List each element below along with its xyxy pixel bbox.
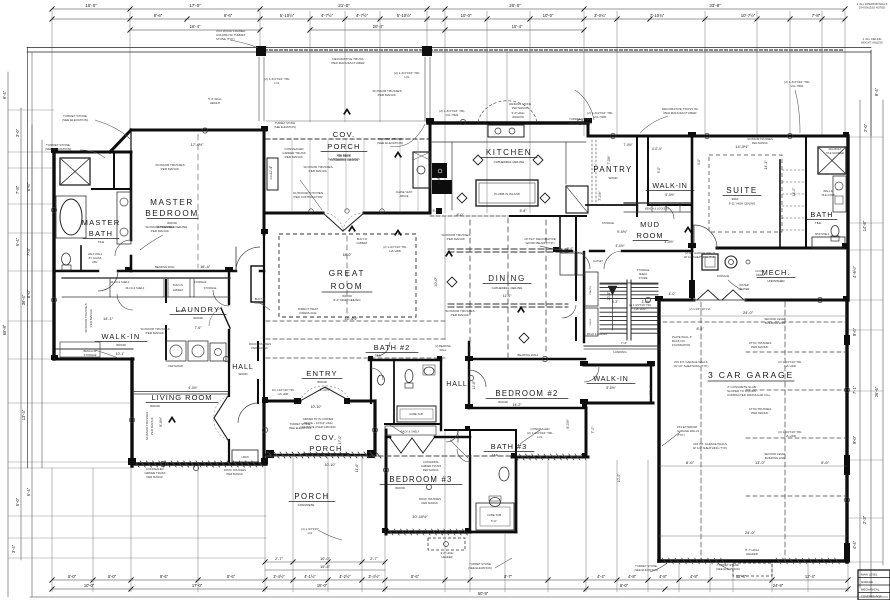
wall: left exterior: [52, 152, 55, 359]
svg-text:SCISSOR TRUSSES: SCISSOR TRUSSES: [145, 412, 149, 440]
svg-text:LVL: LVL: [537, 435, 543, 439]
svg-text:3 CAR GARAGE: 3 CAR GARAGE: [708, 370, 794, 380]
svg-text:(SEE ELEVATION): (SEE ELEVATION): [377, 141, 403, 145]
svg-text:2'-3”: 2'-3”: [862, 515, 867, 524]
svg-text:MOLD & RAILING: MOLD & RAILING: [587, 333, 607, 336]
pantry shelves: [591, 140, 593, 205]
svg-text:LVL HDR: LVL HDR: [784, 364, 796, 368]
wall: master bedroom top: [131, 129, 266, 132]
svg-text:5'-0”: 5'-0”: [68, 574, 77, 579]
svg-text:11'-4”: 11'-4”: [269, 166, 273, 174]
svg-text:WALK-IN: WALK-IN: [652, 181, 687, 190]
svg-text:15'-4”: 15'-4”: [512, 24, 523, 29]
door arc: suite walkin: [660, 205, 674, 219]
svg-text:(SEE ELEVATION): (SEE ELEVATION): [289, 426, 312, 430]
door arc: master wic entry: [98, 271, 118, 291]
wall: bath3 left: [469, 456, 471, 532]
dining beams dashed: [448, 248, 568, 250]
svg-text:PER MANUF.: PER MANUF.: [227, 472, 244, 476]
svg-text:PER MANUF.: PER MANUF.: [751, 345, 769, 349]
svg-text:ROOM: ROOM: [637, 231, 664, 240]
svg-text:TILE: TILE: [98, 240, 104, 244]
svg-text:5'-0½”: 5'-0½”: [606, 386, 616, 390]
door arc: bedroom2: [469, 370, 486, 387]
wall: bath3 lower south: [470, 531, 516, 534]
svg-text:7'-8”: 7'-8”: [15, 185, 20, 194]
hatch: bedroom3 bottom wall: [388, 529, 393, 535]
svg-text:5'-0”: 5'-0”: [491, 519, 497, 523]
arched window above sink: [478, 101, 537, 122]
svg-text:STORAGE: STORAGE: [602, 222, 615, 225]
wall: laundry left: [165, 280, 167, 302]
wall: water closet partition: [80, 246, 82, 271]
svg-text:HEADER: HEADER: [441, 555, 452, 559]
garage dimension lines: [659, 315, 847, 317]
svg-text:10'-0”: 10'-0”: [434, 276, 438, 286]
svg-text:BEARING WALL: BEARING WALL: [155, 265, 176, 269]
svg-text:20'-0”: 20'-0”: [509, 3, 521, 8]
svg-text:CABINET: CABINET: [356, 241, 368, 245]
kitchen counter lines: [432, 141, 586, 143]
wall: bath3 top: [445, 429, 516, 431]
door: entry french doors: [300, 387, 325, 401]
svg-text:PER MANUF.: PER MANUF.: [89, 308, 93, 327]
title block: [858, 570, 890, 600]
svg-text:PANTRY: PANTRY: [589, 285, 592, 294]
svg-text:CABINET: CABINET: [173, 289, 184, 292]
porch column: [256, 46, 266, 56]
door arc: master entry: [236, 247, 260, 271]
svg-text:9'-0½”: 9'-0½”: [566, 419, 570, 429]
bath2 fixtures: [405, 370, 413, 383]
svg-text:4'-0”: 4'-0”: [697, 159, 701, 165]
svg-text:4'-4”: 4'-4”: [597, 574, 606, 579]
wall: kitchen top: [428, 121, 588, 125]
svg-text:HALL: HALL: [446, 381, 468, 388]
wall: cov porch lower left: [262, 403, 265, 464]
wall: master right / porch left: [263, 130, 266, 234]
svg-text:STORAGE: STORAGE: [204, 286, 217, 290]
svg-text:LVL: LVL: [404, 75, 410, 79]
svg-text:5'-0½”: 5'-0½”: [665, 193, 675, 197]
wall: walk-in bottom: [54, 358, 133, 361]
svg-text:11'-6”: 11'-6”: [472, 381, 476, 389]
closet chevrons: hall: [390, 438, 401, 453]
svg-text:7'-1”: 7'-1”: [852, 385, 857, 394]
svg-text:WALL: WALL: [440, 348, 448, 352]
svg-text:10'-0”: 10'-0”: [85, 3, 97, 8]
diagonal: laundry corner door: [221, 308, 230, 328]
svg-text:HEADER: HEADER: [746, 552, 758, 556]
svg-text:PER MANUF.: PER MANUF.: [168, 365, 183, 368]
svg-text:3'-0½”: 3'-0½”: [664, 240, 674, 244]
door: great room french doors: [323, 213, 343, 231]
svg-text:5'-0”: 5'-0”: [15, 497, 20, 506]
wall: bedroom2 bottom: [469, 407, 586, 409]
suite ceiling dashed box: [709, 155, 782, 232]
wall: laundry right: [228, 271, 230, 304]
svg-text:(SEE ELEVATION): (SEE ELEVATION): [634, 568, 658, 572]
wall: suite bottom: [717, 247, 848, 250]
wall: garage left: [657, 300, 660, 561]
svg-text:10'-0”: 10'-0”: [617, 474, 621, 483]
wall: suite walk-in left: [647, 136, 649, 205]
svg-text:8'-6”: 8'-6”: [686, 460, 695, 465]
svg-text:SCISSOR TRUSSES: SCISSOR TRUSSES: [84, 303, 88, 332]
svg-text:24'-0”: 24'-0”: [745, 530, 756, 535]
svg-text:PER MANUF.: PER MANUF.: [447, 237, 466, 241]
svg-text:BUILT-IN: BUILT-IN: [173, 284, 183, 287]
svg-text:PER MANUF.: PER MANUF.: [751, 411, 769, 415]
svg-text:WOOD: WOOD: [150, 404, 160, 408]
svg-text:36'-4”: 36'-4”: [21, 294, 26, 305]
svg-text:(SEE ELEVATION): (SEE ELEVATION): [45, 147, 71, 151]
svg-text:LVL HDR: LVL HDR: [594, 115, 607, 119]
mud bench and lockers: [624, 202, 691, 204]
svg-text:12'-4”: 12'-4”: [736, 574, 747, 579]
svg-text:BEDROOM #2: BEDROOM #2: [495, 389, 558, 398]
svg-text:3'-10½”: 3'-10½”: [320, 388, 331, 392]
svg-text:GREAT: GREAT: [329, 269, 366, 278]
svg-text:LVL HDR: LVL HDR: [791, 84, 804, 88]
svg-text:BENCH & LOCKERS: BENCH & LOCKERS: [645, 208, 669, 211]
svg-text:17'-4½”: 17'-4½”: [191, 143, 204, 147]
svg-text:13'-0”: 13'-0”: [755, 460, 766, 465]
door arc: suite entry: [694, 225, 717, 248]
svg-text:STORE: STORE: [639, 276, 648, 280]
svg-text:5'-0”: 5'-0”: [657, 167, 661, 173]
wall: bedroom3 left: [385, 430, 388, 534]
svg-text:WINDOW: WINDOW: [512, 115, 524, 119]
wall: walkin2 right: [650, 365, 652, 403]
svg-text:CATHEDRAL: CATHEDRAL: [423, 460, 440, 464]
door arc: bath3: [457, 449, 470, 462]
garage dashed framing lines: [700, 302, 702, 560]
svg-text:4'-8”: 4'-8”: [659, 574, 668, 579]
svg-text:7'-8”: 7'-8”: [812, 13, 821, 18]
dimension lines: top band: [52, 8, 845, 10]
svg-text:4'-0”-0”: 4'-0”-0”: [652, 147, 662, 151]
svg-text:(SEE ELEVATION): (SEE ELEVATION): [274, 125, 296, 129]
svg-text:(2) 1-3/4”X16” LVL: (2) 1-3/4”X16” LVL: [689, 307, 711, 311]
bath2 cube tub: [397, 406, 436, 422]
dimension lines: bottom bands: [265, 561, 385, 563]
svg-text:26'-6”: 26'-6”: [874, 386, 879, 397]
svg-text:9'-0”: 9'-0”: [852, 327, 857, 336]
mech floor drain: [746, 260, 750, 264]
svg-text:PORCH: PORCH: [294, 492, 329, 501]
svg-text:5'-6” HIGH: 5'-6” HIGH: [512, 111, 525, 115]
svg-text:4'-2½”: 4'-2½”: [339, 574, 351, 579]
svg-text:4'-8”: 4'-8”: [690, 574, 699, 579]
svg-text:FURNACE: FURNACE: [717, 274, 730, 278]
leader arcs: [95, 120, 131, 140]
svg-text:W/ 1/2” SHEATHING (TYP.): W/ 1/2” SHEATHING (TYP.): [674, 364, 708, 368]
kitchen fridge: [566, 186, 588, 213]
kitchen sink: [488, 125, 524, 137]
dimension lines: left band: [7, 72, 9, 597]
svg-text:STORAGE: STORAGE: [194, 280, 207, 284]
svg-text:CATHEDRAL CEILING: CATHEDRAL CEILING: [494, 160, 525, 164]
svg-text:FOUNDATION: FOUNDATION: [672, 343, 690, 347]
svg-text:WALK-IN: WALK-IN: [593, 374, 628, 383]
svg-text:(2) 1-3/4”X16” TRL: (2) 1-3/4”X16” TRL: [629, 303, 652, 307]
svg-text:LVL: LVL: [274, 81, 280, 85]
svg-text:4. ALL CEILING: 4. ALL CEILING: [862, 37, 881, 41]
wall: pantry bottom: [586, 204, 637, 206]
svg-text:24'-8”: 24'-8”: [773, 583, 784, 588]
svg-text:4'-4”: 4'-4”: [852, 540, 857, 549]
suite linen shelves: [782, 169, 804, 171]
svg-text:7'-0”: 7'-0”: [591, 427, 595, 434]
svg-text:COV.: COV.: [333, 130, 356, 139]
svg-text:CONCRETE: CONCRETE: [298, 503, 315, 507]
svg-text:TILE: TILE: [492, 453, 498, 457]
svg-text:8'-6”: 8'-6”: [696, 327, 704, 331]
svg-text:8'-0”: 8'-0”: [26, 289, 31, 298]
kitchen range (black): [432, 163, 447, 178]
wall: bath2 left: [370, 360, 372, 403]
svg-text:BATH: BATH: [810, 210, 833, 219]
svg-text:7'-4”: 7'-4”: [621, 341, 627, 345]
svg-text:TURRET STONE: TURRET STONE: [275, 121, 295, 125]
door arc: bath2: [371, 368, 383, 380]
svg-text:3'-4”: 3'-4”: [11, 544, 16, 553]
svg-text:BATH: BATH: [89, 229, 114, 238]
svg-text:WOOD: WOOD: [317, 380, 327, 384]
svg-text:9'-0½”: 9'-0½”: [159, 416, 163, 427]
wall: master bedroom turret corner: [110, 130, 131, 152]
svg-text:SHELF: SHELF: [590, 318, 592, 326]
svg-text:(SEE ELEVATION): (SEE ELEVATION): [468, 566, 492, 570]
svg-text:4'-1½”: 4'-1½”: [304, 574, 316, 579]
svg-text:PER MANUF.: PER MANUF.: [150, 417, 154, 435]
svg-text:WOOD: WOOD: [395, 486, 405, 490]
svg-text:TURRET STONE: TURRET STONE: [290, 422, 311, 426]
svg-text:WOOD: WOOD: [176, 309, 184, 313]
svg-text:COMPACTED GRANULAR FILL: COMPACTED GRANULAR FILL: [727, 393, 771, 397]
svg-text:ABOVE: ABOVE: [400, 194, 409, 198]
svg-text:7'-0½”: 7'-0½”: [607, 156, 611, 165]
jamb: garage right door blocks: [844, 455, 850, 475]
svg-text:10'-1”: 10'-1”: [116, 352, 125, 356]
svg-text:LANDING: LANDING: [613, 350, 627, 354]
svg-text:GARAGE: GARAGE: [861, 580, 873, 584]
svg-text:6'-4”: 6'-4”: [15, 237, 20, 246]
wall: living room left: [130, 359, 133, 466]
svg-text:ENTRY: ENTRY: [306, 369, 338, 378]
wall: bath2 top: [369, 359, 441, 361]
svg-text:PER MANUF.: PER MANUF.: [378, 93, 397, 97]
svg-text:WOOD: WOOD: [238, 372, 247, 376]
svg-text:3'-4”: 3'-4”: [457, 428, 463, 432]
svg-text:9'-6” HIGH: 9'-6” HIGH: [441, 551, 454, 555]
svg-text:65'-8”: 65'-8”: [2, 324, 7, 335]
svg-text:COV.: COV.: [315, 433, 338, 442]
svg-text:CHASE VENT: CHASE VENT: [396, 190, 413, 194]
wall: suite bath partition: [805, 136, 807, 248]
truss direction markers: [395, 152, 401, 157]
svg-text:(SEE ELEVATION): (SEE ELEVATION): [62, 118, 88, 122]
wall: kitchen left: [429, 122, 432, 213]
svg-text:CUBE TUB: CUBE TUB: [487, 513, 501, 517]
svg-text:3'-0½”: 3'-0½”: [616, 244, 625, 248]
svg-text:LIVING ROOM: LIVING ROOM: [151, 393, 212, 402]
svg-text:HANGING STONE: HANGING STONE: [509, 102, 532, 106]
svg-text:MUD: MUD: [640, 220, 660, 229]
svg-text:PER MANUF.: PER MANUF.: [285, 155, 304, 159]
wall: garage bottom: [659, 559, 848, 563]
svg-text:16'-4”: 16'-4”: [200, 264, 211, 269]
svg-text:20'-3”: 20'-3”: [607, 292, 611, 301]
svg-text:MAIN LEVEL: MAIN LEVEL: [861, 573, 878, 577]
svg-text:CABINET: CABINET: [254, 301, 266, 305]
svg-text:PER MANUFACTURER: PER MANUFACTURER: [663, 111, 697, 115]
svg-text:ADA BUILT: ADA BUILT: [828, 147, 841, 151]
svg-text:14'-2”: 14'-2”: [512, 403, 522, 407]
svg-text:PER MANUF.: PER MANUF.: [252, 346, 269, 350]
circled door tags: [202, 128, 207, 133]
door arc: bath2: [376, 342, 390, 356]
svg-text:HALL: HALL: [232, 364, 254, 371]
svg-text:WALL &: WALL &: [823, 189, 833, 193]
svg-text:4'-6½”: 4'-6½”: [852, 266, 857, 278]
stairs landing: [584, 345, 660, 347]
svg-text:PER MANUF.: PER MANUF.: [752, 141, 769, 145]
closet shelf: hall: [385, 426, 436, 435]
svg-text:PER MANUF.: PER MANUF.: [422, 501, 439, 505]
svg-text:5'-0”: 5'-0”: [108, 574, 117, 579]
svg-text:PLUMB IN ISLAND: PLUMB IN ISLAND: [494, 192, 521, 196]
svg-text:WOOD: WOOD: [498, 400, 508, 404]
svg-text:W/ 1/2” SHEATHING (TYP.): W/ 1/2” SHEATHING (TYP.): [684, 255, 716, 259]
svg-text:3'-4½”: 3'-4½”: [273, 574, 285, 579]
porch grill counter: [267, 158, 278, 190]
svg-text:16'-4”: 16'-4”: [190, 24, 201, 29]
jamb blocks at wall ends: [261, 126, 268, 131]
svg-text:GIRDER TRUSS: GIRDER TRUSS: [421, 464, 441, 468]
kitchen bearing wall dashed: [430, 215, 586, 217]
wall: master bedroom left (bath divider): [130, 152, 133, 240]
dashed lines: dining verticals: [469, 220, 471, 355]
wall: kitchen step right: [587, 122, 590, 136]
svg-text:5'-6”: 5'-6”: [821, 460, 830, 465]
door arc: walkin2: [584, 367, 599, 382]
svg-text:17'-0”: 17'-0”: [338, 435, 342, 445]
door: garage-mech doors: [697, 290, 708, 300]
svg-text:14'-1”: 14'-1”: [103, 316, 114, 321]
svg-text:PER CONTRACTOR: PER CONTRACTOR: [294, 195, 324, 199]
svg-text:50'-8”: 50'-8”: [478, 591, 489, 596]
svg-text:BUILT IN: BUILT IN: [255, 297, 266, 301]
svg-text:14'-0½”: 14'-0½”: [735, 144, 749, 149]
closet: hall chase: [577, 253, 584, 275]
door arc: pantry: [562, 305, 576, 318]
svg-text:10'-0”: 10'-0”: [543, 13, 554, 18]
svg-text:BUILDING LINE: BUILDING LINE: [765, 456, 785, 460]
svg-text:6'-6”: 6'-6”: [26, 182, 31, 191]
wall: stairs left: [583, 252, 585, 342]
hatch: garage bottom wall: [662, 558, 667, 564]
svg-text:PER MANUF.: PER MANUF.: [423, 468, 440, 472]
great room ceiling dashed box: [279, 234, 416, 317]
wall: bath3 partition: [515, 430, 517, 457]
svg-text:SUITE: SUITE: [726, 186, 758, 195]
svg-text:BUILT IN: BUILT IN: [357, 237, 368, 241]
svg-text:BEARING WALL: BEARING WALL: [518, 353, 539, 357]
svg-text:8'-6”: 8'-6”: [154, 13, 163, 18]
svg-text:HALF WALL: HALF WALL: [88, 252, 103, 256]
svg-text:BATH #3: BATH #3: [491, 442, 527, 451]
svg-text:HEIGHT UNLESS: HEIGHT UNLESS: [861, 40, 883, 44]
svg-text:7'-6”: 7'-6”: [195, 326, 202, 330]
wall: bath2 right / hall left: [440, 360, 442, 430]
svg-text:10'-7½”: 10'-7½”: [741, 13, 756, 18]
svg-text:7'-3”: 7'-3”: [26, 247, 31, 256]
svg-text:BEDROOM: BEDROOM: [145, 209, 199, 218]
svg-text:8'-6”: 8'-6”: [227, 574, 236, 579]
hatch: bath3 bottom wall: [513, 454, 518, 460]
svg-text:RACK & SHELF: RACK & SHELF: [401, 430, 420, 434]
svg-text:BENCH W/: BENCH W/: [84, 349, 97, 353]
svg-text:TILE: TILE: [375, 354, 381, 358]
wall: walkin2 top: [584, 364, 653, 367]
master bath shower: [60, 158, 90, 185]
svg-text:STORAGE: STORAGE: [84, 353, 97, 357]
svg-text:PANTRY: PANTRY: [593, 165, 632, 174]
svg-text:11'-0”: 11'-0”: [503, 294, 513, 298]
svg-text:2'-0”: 2'-0”: [567, 247, 573, 251]
svg-text:19'-8”: 19'-8”: [320, 564, 331, 569]
svg-text:SCISSOR TRUSSES: SCISSOR TRUSSES: [747, 137, 773, 141]
door arc: living room: [238, 403, 258, 423]
svg-text:GIRDER TR IN CORNER: GIRDER TR IN CORNER: [303, 417, 334, 421]
svg-text:9010: 9010: [732, 197, 739, 201]
svg-text:WOOD: WOOD: [608, 176, 617, 180]
svg-text:TILE: TILE: [815, 221, 821, 225]
svg-text:14'-0”: 14'-0”: [792, 188, 796, 197]
closet: hall south: [469, 430, 471, 457]
svg-text:TILE CURB: TILE CURB: [821, 193, 835, 197]
svg-text:WOOD: WOOD: [116, 343, 126, 347]
fireplace: [251, 266, 264, 302]
svg-text:PER MANUFACTURER: PER MANUFACTURER: [331, 61, 365, 65]
svg-text:LVL HDR: LVL HDR: [278, 392, 289, 396]
svg-text:9'-11” HIGH CEILING: 9'-11” HIGH CEILING: [729, 202, 756, 206]
svg-text:COVERED POR: COVERED POR: [861, 595, 882, 599]
svg-text:16) 1-3/4”X16” TRL: 16) 1-3/4”X16” TRL: [272, 388, 295, 392]
svg-text:KITCHEN: KITCHEN: [486, 148, 532, 157]
svg-text:10'-10”: 10'-10”: [324, 463, 336, 467]
wall: cov porch lower right: [373, 401, 376, 455]
wall: bath2 bottom: [385, 423, 441, 425]
mech water heater: [725, 256, 737, 268]
svg-text:MECHANICAL: MECHANICAL: [861, 588, 880, 592]
svg-text:RLCO & SHELF: RLCO & SHELF: [111, 280, 130, 284]
diamond markers dining: [447, 277, 457, 287]
svg-text:MASTER: MASTER: [82, 218, 121, 227]
svg-text:4'-7½”: 4'-7½”: [356, 13, 369, 18]
wall: bath3 bottom: [512, 456, 588, 459]
laundry appliances: [166, 341, 186, 361]
svg-text:4'-7½”: 4'-7½”: [321, 13, 334, 18]
wall: suite left: [691, 136, 694, 251]
svg-text:5'-8”: 5'-8”: [520, 209, 527, 213]
svg-text:HEIGHT: HEIGHT: [210, 101, 221, 105]
suite bath vanity: [833, 176, 846, 212]
svg-text:PER MANUF.: PER MANUF.: [512, 106, 529, 110]
svg-text:10'-10”: 10'-10”: [310, 405, 322, 409]
